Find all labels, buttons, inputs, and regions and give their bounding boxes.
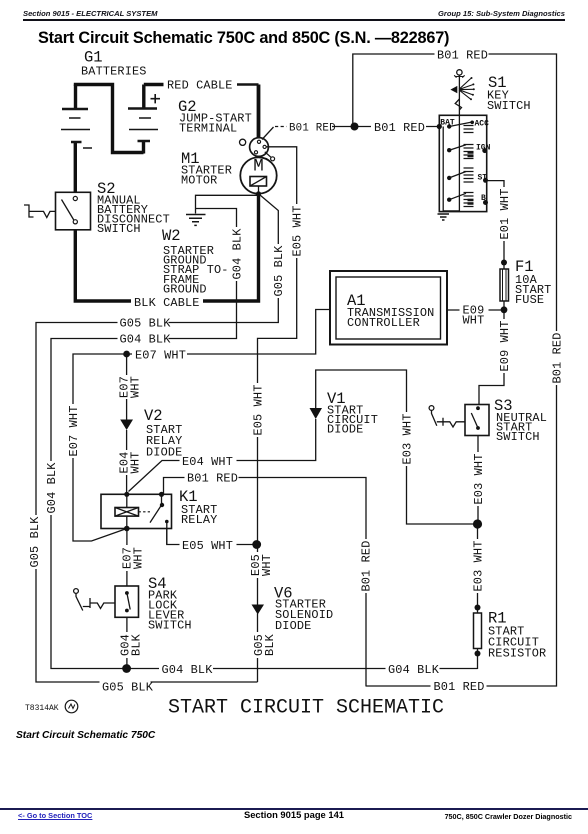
svg-text:E07 WHT: E07 WHT bbox=[135, 348, 186, 362]
svg-text:ST: ST bbox=[478, 173, 488, 182]
svg-text:DIODE: DIODE bbox=[275, 619, 311, 633]
svg-text:B01 RED: B01 RED bbox=[551, 333, 565, 384]
svg-text:BATTERIES: BATTERIES bbox=[81, 65, 147, 79]
svg-text:BAT: BAT bbox=[440, 119, 455, 128]
svg-text:B01 RED: B01 RED bbox=[374, 121, 425, 135]
svg-text:DIODE: DIODE bbox=[327, 423, 363, 437]
svg-text:E05 WHT: E05 WHT bbox=[182, 539, 233, 553]
svg-text:G04 BLK: G04 BLK bbox=[231, 228, 245, 280]
svg-text:MOTOR: MOTOR bbox=[181, 174, 217, 188]
svg-text:SWITCH: SWITCH bbox=[496, 430, 540, 444]
svg-text:START CIRCUIT SCHEMATIC: START CIRCUIT SCHEMATIC bbox=[168, 697, 444, 720]
svg-text:GROUND: GROUND bbox=[163, 282, 207, 296]
svg-text:G04 BLK: G04 BLK bbox=[388, 663, 440, 677]
svg-text:SWITCH: SWITCH bbox=[148, 619, 192, 633]
svg-text:W2: W2 bbox=[162, 227, 181, 245]
svg-text:G05 BLK: G05 BLK bbox=[120, 317, 172, 331]
svg-text:TERMINAL: TERMINAL bbox=[179, 122, 237, 136]
svg-text:E05 WHT: E05 WHT bbox=[291, 206, 305, 257]
svg-text:E03 WHT: E03 WHT bbox=[401, 414, 415, 465]
svg-text:G04 BLK: G04 BLK bbox=[45, 462, 59, 514]
svg-text:B: B bbox=[481, 194, 486, 203]
svg-text:B01 RED: B01 RED bbox=[360, 541, 374, 592]
svg-text:ACC: ACC bbox=[475, 120, 490, 129]
svg-text:SWITCH: SWITCH bbox=[97, 222, 141, 236]
svg-text:RESISTOR: RESISTOR bbox=[488, 647, 546, 661]
svg-text:E05 WHT: E05 WHT bbox=[252, 385, 266, 436]
svg-text:WHT: WHT bbox=[129, 376, 143, 398]
svg-text:E01 WHT: E01 WHT bbox=[498, 189, 512, 240]
svg-text:B01 RED: B01 RED bbox=[434, 680, 485, 694]
svg-text:G04 BLK: G04 BLK bbox=[120, 333, 172, 347]
svg-text:FUSE: FUSE bbox=[515, 293, 544, 307]
svg-text:B01 RED: B01 RED bbox=[437, 49, 488, 63]
svg-text:BLK CABLE: BLK CABLE bbox=[134, 296, 200, 310]
svg-text:E03 WHT: E03 WHT bbox=[472, 541, 486, 592]
svg-text:BLK: BLK bbox=[130, 633, 144, 656]
svg-text:RED CABLE: RED CABLE bbox=[167, 79, 233, 93]
svg-text:WHT: WHT bbox=[129, 452, 143, 474]
svg-text:E03 WHT: E03 WHT bbox=[472, 454, 486, 505]
svg-text:WHT: WHT bbox=[132, 547, 146, 569]
svg-text:RELAY: RELAY bbox=[181, 513, 217, 527]
svg-text:G05 BLK: G05 BLK bbox=[272, 245, 286, 297]
svg-text:G04 BLK: G04 BLK bbox=[162, 663, 214, 677]
svg-text:BLK: BLK bbox=[263, 633, 277, 656]
svg-text:WHT: WHT bbox=[260, 554, 274, 576]
svg-text:IGN: IGN bbox=[476, 144, 491, 153]
svg-text:T8314AK: T8314AK bbox=[25, 704, 59, 713]
svg-text:G05 BLK: G05 BLK bbox=[102, 681, 154, 695]
svg-text:G05 BLK: G05 BLK bbox=[28, 516, 42, 568]
svg-text:SWITCH: SWITCH bbox=[487, 99, 531, 113]
svg-text:E09 WHT: E09 WHT bbox=[498, 321, 512, 372]
svg-text:M: M bbox=[253, 157, 264, 177]
svg-text:CONTROLLER: CONTROLLER bbox=[347, 316, 420, 330]
svg-text:B01 RED: B01 RED bbox=[289, 122, 336, 134]
svg-text:B01 RED: B01 RED bbox=[187, 472, 238, 486]
svg-text:E07 WHT: E07 WHT bbox=[67, 406, 81, 457]
svg-text:E04 WHT: E04 WHT bbox=[182, 455, 233, 469]
svg-text:WHT: WHT bbox=[463, 313, 485, 327]
svg-text:DIODE: DIODE bbox=[146, 446, 182, 460]
